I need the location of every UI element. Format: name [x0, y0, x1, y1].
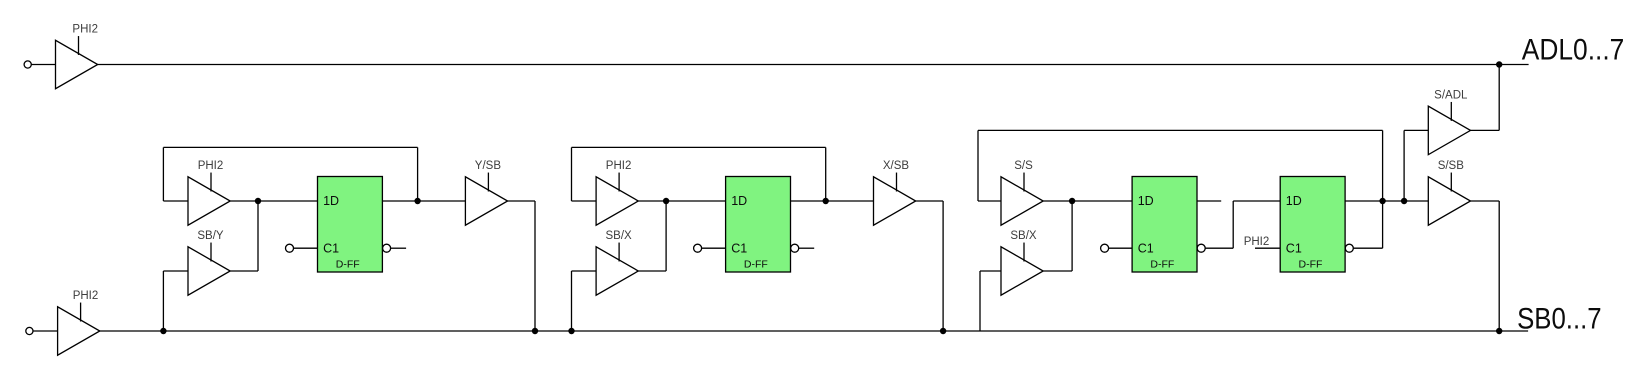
svg-text:PHI2: PHI2	[72, 24, 98, 36]
junction X-latch output on SB	[940, 328, 946, 334]
wire S/ADL input vertical	[1403, 130, 1405, 201]
svg-text:1D: 1D	[731, 194, 747, 208]
wire S/ADL input horizontal	[1404, 129, 1428, 131]
svg-text:PHI2: PHI2	[73, 290, 99, 302]
wire S-dff1 Q stub	[1197, 200, 1221, 202]
wire Y-latch row2 buffer out	[230, 270, 258, 272]
wire S-dff1 C1 out horizontal	[1205, 247, 1233, 249]
wire S/S buffer input	[978, 200, 1001, 202]
wire Y-latch row2 buffer input	[163, 270, 188, 272]
junction S/SB output on SB	[1496, 328, 1502, 334]
wire S buffer out to D input	[1043, 200, 1132, 202]
wire Y-latch feedback vertical	[417, 147, 419, 201]
wire X-latch C1 input stub	[702, 247, 726, 249]
svg-text:X/SB: X/SB	[883, 160, 910, 172]
wire X-latch output	[916, 200, 943, 202]
junction S D-input node	[1069, 198, 1075, 204]
svg-text:1D: 1D	[323, 194, 339, 208]
wire S row2 buffer input	[980, 270, 1001, 272]
open terminal S-dff1 C1 input	[1101, 244, 1109, 252]
wire X-latch output vertical	[942, 201, 944, 331]
tristate buffer SB/Y	[188, 243, 230, 296]
wire ADL bus	[98, 64, 1529, 66]
wire X-latch feedback vertical	[825, 147, 827, 201]
svg-text:C1: C1	[731, 242, 747, 256]
svg-text:SB/Y: SB/Y	[197, 230, 224, 242]
wire X-latch buffer input	[572, 200, 597, 202]
open terminal X-latch C1 input	[694, 244, 702, 252]
wire Y-latch row2 input vertical	[162, 271, 164, 331]
wire X-latch feedback top	[572, 146, 826, 148]
wire Y-latch C1 output stub	[391, 247, 407, 249]
wire X-latch row2 buffer input	[572, 270, 597, 272]
wire X-latch row2 buffer out	[638, 270, 666, 272]
svg-text:ADL0...7: ADL0...7	[1522, 34, 1625, 67]
wire S/ADL output	[1471, 129, 1500, 131]
tristate buffer PHI2	[56, 36, 98, 89]
svg-text:C1: C1	[1138, 242, 1154, 256]
wire S feedback top	[978, 129, 1383, 131]
wire S/SB output	[1471, 200, 1500, 202]
junction X-latch SB tap	[568, 328, 574, 334]
wire S row2 input vertical	[979, 271, 981, 331]
junction Y-latch feedback node	[414, 198, 420, 204]
junction Y-latch SB tap	[160, 328, 166, 334]
open terminal Y-latch C1 input	[286, 244, 294, 252]
open terminal S-dff2 C1 output	[1345, 244, 1353, 252]
junction ADL / S-ADL output	[1496, 61, 1502, 67]
wire S row2 buffer out	[1043, 270, 1072, 272]
tristate buffer PHI2	[58, 303, 100, 356]
svg-text:SB0...7: SB0...7	[1517, 302, 1602, 335]
D flip-flop S-dff1	[1132, 177, 1197, 273]
wire S feedback left vertical	[977, 130, 979, 201]
wire S-dff2 C1 input stub	[1255, 247, 1280, 249]
tristate buffer PHI2	[596, 173, 638, 226]
D flip-flop Y-latch-dff	[318, 177, 383, 273]
svg-text:D-FF: D-FF	[336, 258, 360, 270]
open terminal input of ADL driver	[24, 61, 31, 68]
junction Y-latch D-input node	[255, 198, 261, 204]
wire Y-latch buffer input	[163, 200, 188, 202]
tristate buffer SB/X	[596, 243, 638, 296]
wire X-latch feedback left vertical	[571, 147, 573, 201]
wire S/SB output vertical	[1498, 201, 1500, 331]
tristate buffer PHI2	[188, 173, 230, 226]
svg-text:1D: 1D	[1138, 194, 1154, 208]
wire X-latch Q to output buffer	[791, 200, 874, 202]
svg-text:PHI2: PHI2	[606, 160, 632, 172]
wire X-latch C1 output stub	[799, 247, 815, 249]
svg-text:PHI2: PHI2	[198, 160, 224, 172]
D flip-flop X-latch-dff	[726, 177, 791, 273]
svg-text:C1: C1	[323, 242, 339, 256]
tristate buffer S/ADL	[1428, 102, 1470, 155]
open terminal input of SB driver	[26, 327, 33, 334]
junction S feedback node	[1379, 198, 1385, 204]
open terminal X-latch C1 output	[791, 244, 799, 252]
svg-text:1D: 1D	[1286, 194, 1302, 208]
open terminal S-dff1 C1 output	[1197, 244, 1205, 252]
open terminal Y-latch C1 output	[383, 244, 391, 252]
junction Y-latch output on SB	[532, 328, 538, 334]
svg-text:S/SB: S/SB	[1438, 160, 1465, 172]
tristate buffer SB/X	[1001, 243, 1043, 296]
wire S junction to row2 vertical	[1071, 201, 1073, 271]
tristate buffer S/SB	[1428, 173, 1470, 226]
wire S-dff2 C1 out horizontal	[1353, 247, 1382, 249]
wire ADL driver input	[31, 64, 55, 66]
wire SB bus	[100, 330, 1528, 332]
wire Y-latch feedback top	[163, 146, 417, 148]
junction S/ADL tap node	[1401, 198, 1407, 204]
wire Y-latch Q to output buffer	[382, 200, 465, 202]
wire X-latch junction to row2 vertical	[665, 201, 667, 271]
svg-text:PHI2: PHI2	[1244, 236, 1270, 248]
svg-text:D-FF: D-FF	[744, 258, 768, 270]
wire Y-latch C1 input stub	[294, 247, 318, 249]
tristate buffer X/SB	[874, 173, 916, 226]
D flip-flop S-dff2	[1280, 177, 1345, 273]
svg-text:C1: C1	[1286, 242, 1302, 256]
svg-text:SB/X: SB/X	[1010, 230, 1037, 242]
wire S/ADL output vertical	[1498, 65, 1500, 131]
svg-text:Y/SB: Y/SB	[475, 160, 502, 172]
tristate buffer S/S	[1001, 173, 1043, 226]
svg-text:S/ADL: S/ADL	[1434, 90, 1468, 102]
svg-text:S/S: S/S	[1014, 160, 1033, 172]
wire Y-latch output vertical	[534, 201, 536, 331]
wire Y-latch junction to row2 vertical	[257, 201, 259, 271]
wire S-dff2 D input	[1233, 200, 1280, 202]
wire S interstage vertical	[1232, 201, 1234, 248]
junction X-latch D-input node	[663, 198, 669, 204]
wire Y-latch feedback left vertical	[162, 147, 164, 201]
wire X-latch row2 input vertical	[571, 271, 573, 331]
svg-text:SB/X: SB/X	[605, 230, 632, 242]
wire Y-latch output	[508, 200, 535, 202]
wire S-dff2 Q to output buffers	[1345, 200, 1428, 202]
wire SB driver input	[33, 330, 58, 332]
wire X-latch buffer out to D input	[638, 200, 725, 202]
junction X-latch feedback node	[823, 198, 829, 204]
svg-text:D-FF: D-FF	[1150, 258, 1174, 270]
wire S feedback right vertical	[1382, 130, 1384, 248]
wire S-dff1 C1 input stub	[1109, 247, 1133, 249]
svg-text:D-FF: D-FF	[1298, 258, 1322, 270]
tristate buffer Y/SB	[465, 173, 507, 226]
wire Y-latch buffer out to D input	[230, 200, 317, 202]
